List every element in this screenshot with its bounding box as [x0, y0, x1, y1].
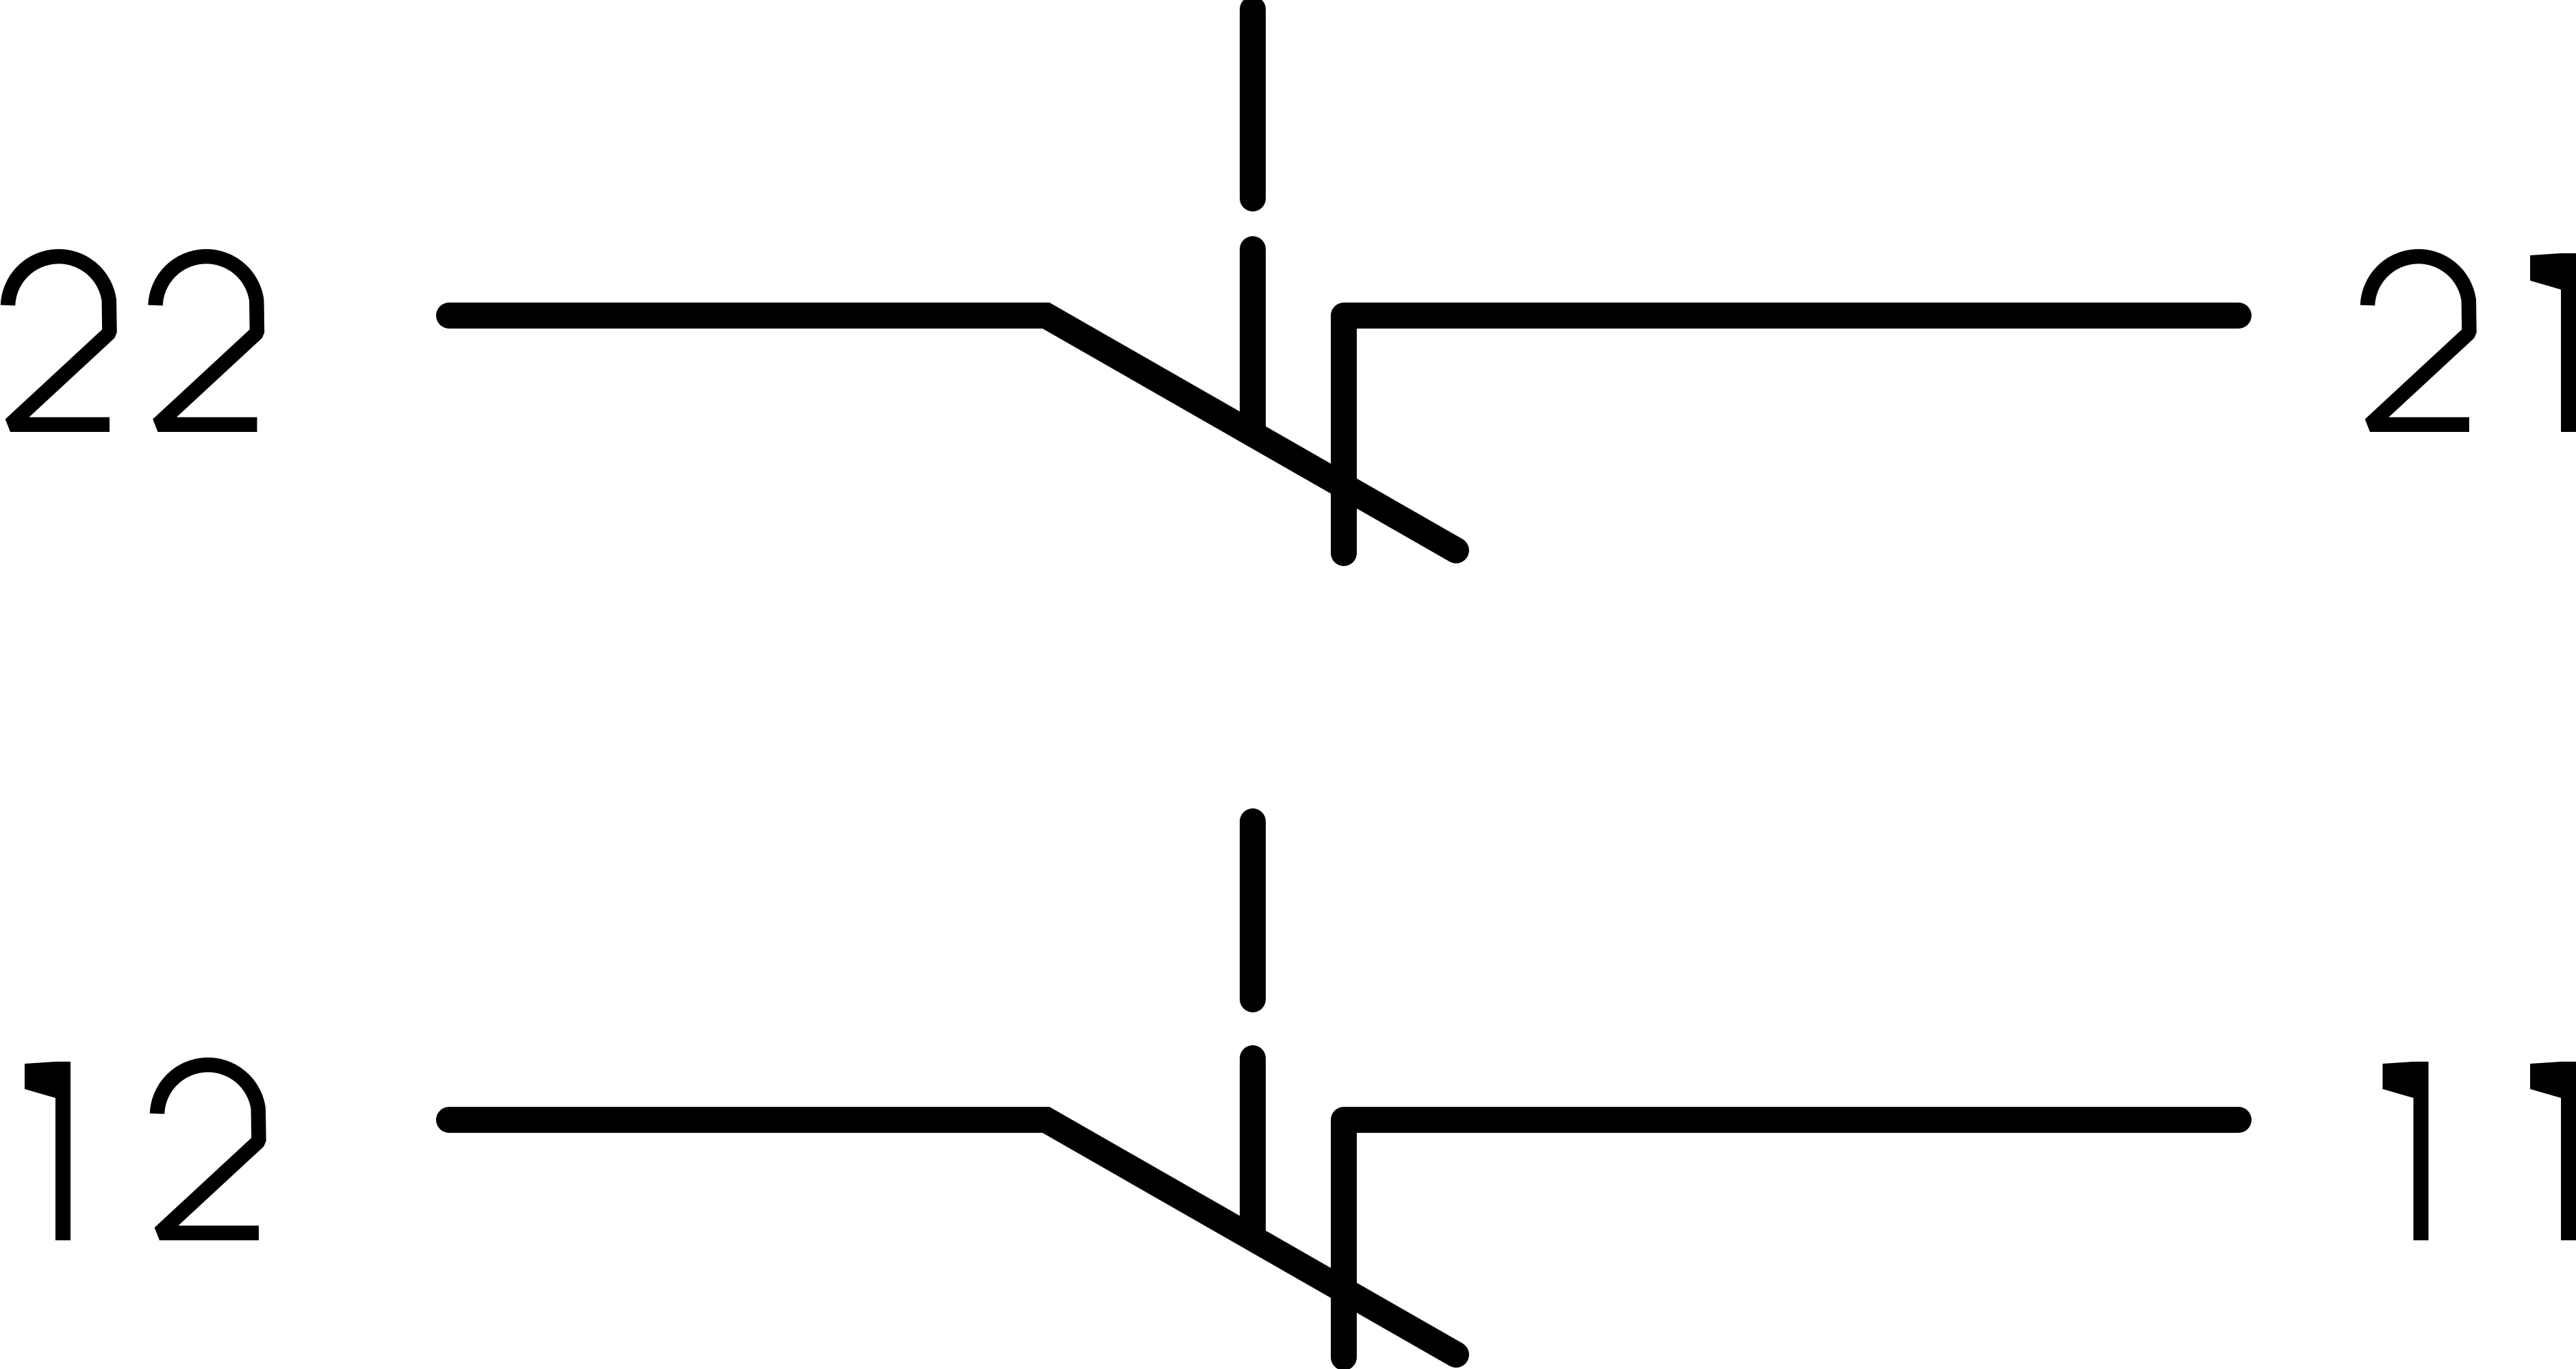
actuator linkage dash (bottom contact, upper segment) — [1240, 821, 1266, 999]
actuator linkage dash (top contact, upper segment) — [1240, 10, 1266, 199]
actuator linkage dash (bottom contact, lower segment) — [1240, 1058, 1266, 1237]
fixed contact bar and wire to terminal 21 (top NC contact) — [1344, 316, 2239, 553]
terminal label 21 — [2368, 253, 2576, 432]
fixed contact bar and wire to terminal 11 (bottom NC contact) — [1344, 1120, 2239, 1357]
wire from terminal 22 with moving blade of top NC contact — [449, 316, 1456, 550]
terminal label 12 — [25, 1062, 259, 1240]
terminal label 22 — [8, 257, 257, 425]
actuator linkage dash (top contact, lower segment) — [1240, 249, 1266, 433]
terminal label 11 — [2383, 1062, 2576, 1240]
wire from terminal 12 with moving blade of bottom NC contact — [449, 1120, 1456, 1355]
